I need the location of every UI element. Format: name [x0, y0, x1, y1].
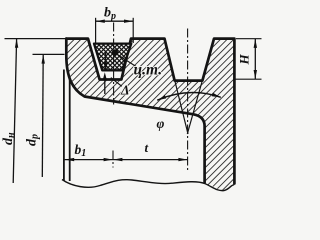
svg-text:dн: dн: [1, 132, 17, 145]
belt cross-section (crosshatched trapezoid): [94, 44, 131, 71]
svg-text:ц.т.: ц.т.: [134, 62, 163, 79]
angle phi arc with arrows: [157, 93, 221, 101]
svg-text:Δ: Δ: [120, 83, 129, 98]
groove 1 centerline lower piece: [112, 151, 114, 168]
svg-text:dр: dр: [25, 134, 41, 146]
dimension b_p: dimension line with arrows: [96, 20, 134, 22]
left flange edge line (outer): [63, 70, 65, 181]
left wall + fillet + rim underside + corner + inner boundary (thick): [66, 39, 204, 183]
svg-text:b1: b1: [75, 142, 87, 159]
left flange edge line (inner): [69, 79, 71, 182]
dimension b_p: extension lines: [95, 18, 97, 43]
groove 1 centerline: [113, 23, 115, 105]
dimension H: line with arrows: [254, 39, 256, 79]
break line (wavy): [62, 180, 234, 191]
dimension d_H: extension (top surface extended): [5, 38, 67, 40]
main outline: top surface + grooves + right face (thick): [66, 39, 234, 184]
dimension d_p: extension line: [33, 53, 65, 55]
pulley body section (hatched): [66, 39, 234, 191]
svg-text:t: t: [145, 140, 149, 155]
center of gravity dot: [112, 49, 118, 55]
b1 arrows: [65, 158, 74, 161]
t arrows: [113, 158, 122, 161]
delta lower arrow (pointing up from below): [104, 76, 106, 94]
svg-text:H: H: [237, 54, 252, 66]
dimension H: extension lines: [236, 38, 262, 40]
dimension d_H: line with up arrow: [13, 39, 16, 183]
delta leader: [111, 78, 122, 87]
delta upper arrow (pointing down at belt bottom): [105, 51, 107, 65]
groove 2 centerline: [187, 29, 189, 173]
dimension line b1 + t (common line): [65, 159, 188, 161]
svg-text:φ: φ: [157, 116, 165, 131]
leader to ц.т. label: [117, 54, 136, 66]
svg-text:bр: bр: [104, 6, 116, 23]
dimension d_p: line with up arrow: [41, 55, 44, 177]
groove 2 flank extension lines (V to vertex): [175, 81, 188, 134]
